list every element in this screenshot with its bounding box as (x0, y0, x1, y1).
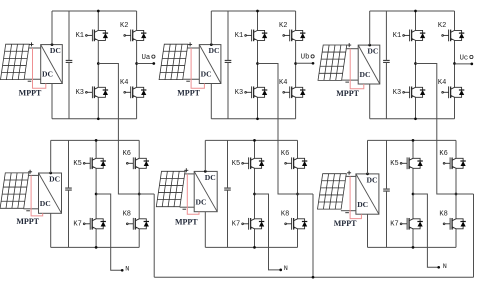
MPPT feedback wire (red) top cell phase b (191, 48, 204, 88)
svg-text:DC: DC (49, 175, 60, 184)
node left leg / bottom rail bottom cell phase b (253, 246, 256, 249)
svg-text:K1: K1 (393, 32, 401, 40)
node left leg midpoint top cell phase c (414, 62, 417, 65)
svg-text:MPPT: MPPT (334, 219, 357, 228)
wire PV + terminal to DC/DC bottom cell phase b (184, 173, 194, 175)
label - top cell phase a (28, 80, 32, 82)
capacitor DC link top cell phase a (66, 60, 73, 62)
svg-text:K2: K2 (279, 22, 287, 30)
wire DC bus bottom rail top cell phase c (370, 118, 455, 120)
MPPT feedback wire (red) top cell phase c (350, 49, 364, 89)
wire DC bus bottom rail bottom cell phase b (205, 246, 297, 248)
node left leg / top rail top cell phase c (414, 10, 417, 13)
wire DC bus bottom rail top cell phase a (52, 118, 137, 120)
label + bottom cell phase a (28, 170, 32, 174)
wire DC/DC output to DC bus bottom cell phase a (50, 140, 52, 247)
PV panel top cell phase b (159, 44, 188, 79)
node N terminal phase c (437, 266, 440, 269)
svg-text:K8: K8 (281, 211, 289, 219)
node left leg / top rail bottom cell phase c (412, 139, 415, 142)
wire PV - terminal to DC/DC top cell phase b (183, 78, 200, 80)
wire DC bus top rail bottom cell phase a (51, 139, 140, 141)
PV panel bottom cell phase a (0, 173, 29, 208)
transistor K8 (IGBT with diode) bottom cell phase b (285, 218, 308, 230)
wire capacitor leads bottom cell phase a (68, 140, 70, 247)
svg-text:K6: K6 (439, 150, 447, 158)
transistor K3 (IGBT with diode) top cell phase a (86, 86, 109, 98)
transistor K3 (IGBT with diode) top cell phase c (403, 86, 426, 98)
node left leg / bottom rail bottom cell phase c (412, 246, 415, 249)
transistor K6 (IGBT with diode) bottom cell phase a (126, 157, 149, 169)
svg-text:K7: K7 (73, 220, 81, 228)
node right leg midpoint top cell phase a (135, 62, 138, 65)
transistor K7 (IGBT with diode) bottom cell phase c (400, 218, 423, 230)
node left leg midpoint bottom cell phase b (253, 193, 256, 196)
label + bottom cell phase c (347, 171, 351, 175)
wire capacitor leads top cell phase c (385, 11, 387, 119)
node left leg / bottom rail top cell phase a (97, 117, 100, 120)
transistor K5 (IGBT with diode) bottom cell phase b (242, 157, 265, 169)
wire capacitor leads top cell phase a (68, 11, 70, 119)
svg-text:K3: K3 (76, 89, 84, 97)
wire left leg bottom cell phase a (95, 140, 97, 247)
transistor K7 (IGBT with diode) bottom cell phase b (242, 218, 265, 230)
wire right leg bottom cell phase b (297, 140, 299, 247)
transistor K7 (IGBT with diode) bottom cell phase a (83, 218, 106, 230)
wire PV - terminal to DC/DC top cell phase c (341, 79, 358, 81)
svg-text:K4: K4 (120, 79, 128, 87)
node left leg midpoint bottom cell phase c (412, 193, 415, 196)
svg-text:K8: K8 (123, 211, 131, 219)
capacitor DC link bottom cell phase b (224, 188, 231, 190)
transistor K5 (IGBT with diode) bottom cell phase a (83, 157, 106, 169)
node output terminal Uc (470, 63, 473, 66)
svg-text:DC: DC (196, 198, 207, 207)
svg-text:K1: K1 (76, 32, 84, 40)
transistor K4 (IGBT with diode) top cell phase b (283, 86, 306, 98)
label + top cell phase b (188, 42, 192, 46)
transistor K1 (IGBT with diode) top cell phase b (245, 30, 268, 42)
node right leg midpoint bottom cell phase c (455, 193, 458, 196)
svg-text:DC: DC (360, 70, 371, 79)
label + top cell phase c (347, 43, 351, 47)
wire DC bus bottom rail top cell phase b (211, 118, 295, 120)
DC/DC converter top cell phase c (358, 45, 380, 84)
svg-text:K8: K8 (439, 211, 447, 219)
node right leg midpoint top cell phase c (453, 62, 456, 65)
transistor K2 (IGBT with diode) top cell phase a (124, 30, 147, 42)
svg-text:N: N (284, 265, 288, 273)
svg-text:DC: DC (209, 46, 220, 55)
node left leg / bottom rail top cell phase b (256, 117, 259, 120)
wire N terminal phase c from bottom cell left midpoint (413, 194, 439, 267)
node N terminal phase a (121, 269, 124, 272)
wire DC bus bottom rail bottom cell phase c (368, 246, 457, 248)
transistor K8 (IGBT with diode) bottom cell phase a (126, 218, 149, 230)
wire PV + terminal to DC/DC bottom cell phase a (28, 174, 39, 176)
wire capacitor leads bottom cell phase b (227, 140, 229, 247)
node output terminal Ua (152, 62, 155, 65)
wire phase a connection down to N bus (153, 194, 155, 277)
wire right leg bottom cell phase c (455, 140, 457, 247)
svg-text:MPPT: MPPT (177, 89, 200, 98)
node right leg midpoint top cell phase b (294, 62, 297, 65)
svg-text:K7: K7 (390, 220, 398, 228)
svg-text:K5: K5 (232, 160, 240, 168)
PV panel top cell phase c (318, 45, 347, 80)
svg-text:K5: K5 (390, 160, 398, 168)
svg-text:K4: K4 (279, 79, 287, 87)
node left leg / top rail bottom cell phase a (95, 139, 98, 142)
wire right leg bottom cell phase a (138, 140, 140, 247)
node output terminal Ub (312, 62, 315, 65)
node DC/DC top terminal bottom cell phase a (49, 172, 52, 175)
wire N terminal phase b from bottom cell left midpoint (255, 194, 281, 270)
capacitor DC link top cell phase b (225, 60, 232, 62)
node left leg / top rail top cell phase a (97, 10, 100, 13)
wire DC/DC output to DC bus top cell phase a (51, 11, 53, 119)
wire PV - terminal to DC/DC top cell phase a (24, 78, 41, 80)
transistor K8 (IGBT with diode) bottom cell phase c (443, 218, 466, 230)
wire output Ub from right leg midpoint (296, 62, 313, 64)
MPPT feedback wire (red) bottom cell phase c (350, 176, 361, 218)
svg-text:DC: DC (50, 46, 61, 55)
svg-text:MPPT: MPPT (19, 89, 42, 98)
node left leg midpoint top cell phase b (256, 62, 259, 65)
wire DC/DC output to DC bus top cell phase c (369, 11, 371, 119)
svg-text:N: N (443, 263, 447, 271)
node DC/DC top terminal top cell phase a (51, 43, 54, 46)
svg-text:K3: K3 (393, 89, 401, 97)
wire output Ua from right leg midpoint (137, 63, 154, 65)
node left leg / top rail bottom cell phase b (253, 139, 256, 142)
svg-text:DC: DC (201, 69, 212, 78)
svg-text:MPPT: MPPT (16, 217, 39, 226)
wire left leg top cell phase a (97, 11, 99, 119)
wire N terminal phase a from bottom cell left midpoint (96, 194, 122, 270)
label - top cell phase b (186, 80, 190, 82)
wire DC/DC output to DC bus top cell phase b (210, 11, 212, 119)
node DC/DC top terminal top cell phase b (210, 43, 213, 46)
node left leg / bottom rail bottom cell phase a (95, 246, 98, 249)
svg-text:K1: K1 (235, 32, 243, 40)
node N terminal phase b (279, 269, 282, 272)
transistor K1 (IGBT with diode) top cell phase a (86, 30, 109, 42)
transistor K3 (IGBT with diode) top cell phase b (245, 86, 268, 98)
MPPT feedback wire (red) top cell phase a (33, 48, 46, 88)
node DC/DC top terminal bottom cell phase c (366, 173, 369, 176)
wire DC bus top rail top cell phase c (370, 10, 455, 12)
svg-text:K7: K7 (232, 220, 240, 228)
transistor K4 (IGBT with diode) top cell phase c (442, 86, 465, 98)
wire DC bus bottom rail bottom cell phase a (51, 246, 140, 248)
svg-text:DC: DC (357, 200, 368, 209)
svg-text:K2: K2 (120, 22, 128, 30)
wire PV + terminal to DC/DC top cell phase c (346, 48, 358, 50)
wire capacitor leads bottom cell phase c (386, 140, 388, 247)
svg-text:Uc: Uc (460, 54, 469, 62)
label - top cell phase c (345, 81, 349, 83)
svg-text:K6: K6 (123, 150, 131, 158)
transistor K6 (IGBT with diode) bottom cell phase c (443, 157, 466, 169)
wire PV + terminal to DC/DC top cell phase b (187, 47, 199, 49)
wire DC bus top rail bottom cell phase b (205, 139, 297, 141)
MPPT feedback wire (red) bottom cell phase b (187, 174, 199, 214)
wire left leg bottom cell phase b (254, 140, 256, 247)
DC/DC converter bottom cell phase c (356, 174, 379, 214)
label - bottom cell phase a (26, 210, 30, 212)
transistor K5 (IGBT with diode) bottom cell phase c (400, 157, 423, 169)
wire PV - terminal to DC/DC bottom cell phase a (24, 208, 39, 210)
svg-text:K5: K5 (73, 160, 81, 168)
DC/DC converter bottom cell phase b (194, 171, 217, 211)
svg-text:K4: K4 (438, 79, 446, 87)
node left leg midpoint bottom cell phase a (95, 193, 98, 196)
DC/DC converter top cell phase a (41, 45, 63, 84)
wire output Uc from right leg midpoint (455, 63, 472, 65)
svg-text:Ua: Ua (142, 54, 151, 62)
wire left leg top cell phase c (415, 11, 417, 119)
svg-text:Ub: Ub (301, 54, 310, 62)
label + top cell phase a (30, 42, 34, 46)
svg-text:K2: K2 (438, 22, 446, 30)
svg-text:MPPT: MPPT (336, 89, 359, 98)
node DC/DC top terminal top cell phase c (368, 44, 371, 47)
transistor K4 (IGBT with diode) top cell phase a (124, 86, 147, 98)
wire left leg top cell phase b (257, 11, 259, 119)
transistor K2 (IGBT with diode) top cell phase c (442, 30, 465, 42)
wire phase b connection down to N bus (312, 194, 314, 277)
svg-text:DC: DC (367, 47, 378, 56)
node right leg midpoint bottom cell phase b (296, 193, 299, 196)
transistor K2 (IGBT with diode) top cell phase b (283, 30, 306, 42)
wire right leg top cell phase c (454, 11, 456, 119)
DC/DC converter top cell phase b (199, 45, 221, 84)
wire left leg bottom cell phase c (412, 140, 414, 247)
node left leg / bottom rail top cell phase c (414, 117, 417, 120)
label - bottom cell phase c (345, 212, 349, 214)
PV panel bottom cell phase b (156, 171, 185, 206)
node DC/DC top terminal bottom cell phase b (204, 170, 207, 173)
MPPT feedback wire (red) bottom cell phase a (31, 175, 43, 216)
transistor K6 (IGBT with diode) bottom cell phase b (285, 157, 308, 169)
node N bus / phase b drop (312, 276, 315, 279)
transistor K1 (IGBT with diode) top cell phase c (403, 30, 426, 42)
label + bottom cell phase b (184, 168, 188, 172)
capacitor DC link top cell phase c (383, 60, 390, 62)
svg-text:N: N (125, 266, 129, 274)
PV panel bottom cell phase c (317, 174, 346, 209)
wire DC bus top rail top cell phase b (211, 10, 295, 12)
wire cascade link phase a: top cell left midpoint down to bottom cell right midpoint (98, 64, 154, 195)
wire right leg top cell phase a (136, 11, 138, 119)
svg-text:DC: DC (42, 69, 53, 78)
wire cascade link phase c: top cell left midpoint down to bottom cell right midpoint (416, 64, 474, 195)
wire DC bus top rail bottom cell phase c (368, 139, 457, 141)
svg-text:DC: DC (367, 176, 378, 185)
PV panel top cell phase a (0, 44, 29, 79)
wire capacitor leads top cell phase b (227, 11, 229, 119)
wire DC/DC output to DC bus bottom cell phase b (204, 140, 206, 247)
capacitor DC link bottom cell phase c (383, 189, 390, 191)
wire N bus (154, 276, 473, 278)
wire phase c connection down to N bus (473, 194, 475, 277)
wire PV - terminal to DC/DC bottom cell phase b (180, 206, 195, 208)
wire PV + terminal to DC/DC top cell phase a (28, 47, 40, 49)
node left leg midpoint top cell phase a (97, 62, 100, 65)
wire PV + terminal to DC/DC bottom cell phase c (345, 175, 356, 177)
svg-text:DC: DC (40, 199, 51, 208)
svg-text:DC: DC (205, 173, 216, 182)
wire right leg top cell phase b (295, 11, 297, 119)
node left leg / top rail top cell phase b (256, 10, 259, 13)
label - bottom cell phase b (183, 208, 187, 210)
DC/DC converter bottom cell phase a (39, 173, 62, 213)
svg-text:MPPT: MPPT (175, 218, 198, 227)
svg-text:K3: K3 (235, 89, 243, 97)
wire cascade link phase b: top cell left midpoint down to bottom cell right midpoint (258, 64, 314, 195)
node right leg midpoint bottom cell phase a (138, 193, 141, 196)
capacitor DC link bottom cell phase a (65, 188, 72, 190)
wire PV - terminal to DC/DC bottom cell phase c (341, 210, 356, 212)
wire DC/DC output to DC bus bottom cell phase c (367, 140, 369, 247)
svg-text:K6: K6 (281, 150, 289, 158)
wire DC bus top rail top cell phase a (52, 10, 137, 12)
